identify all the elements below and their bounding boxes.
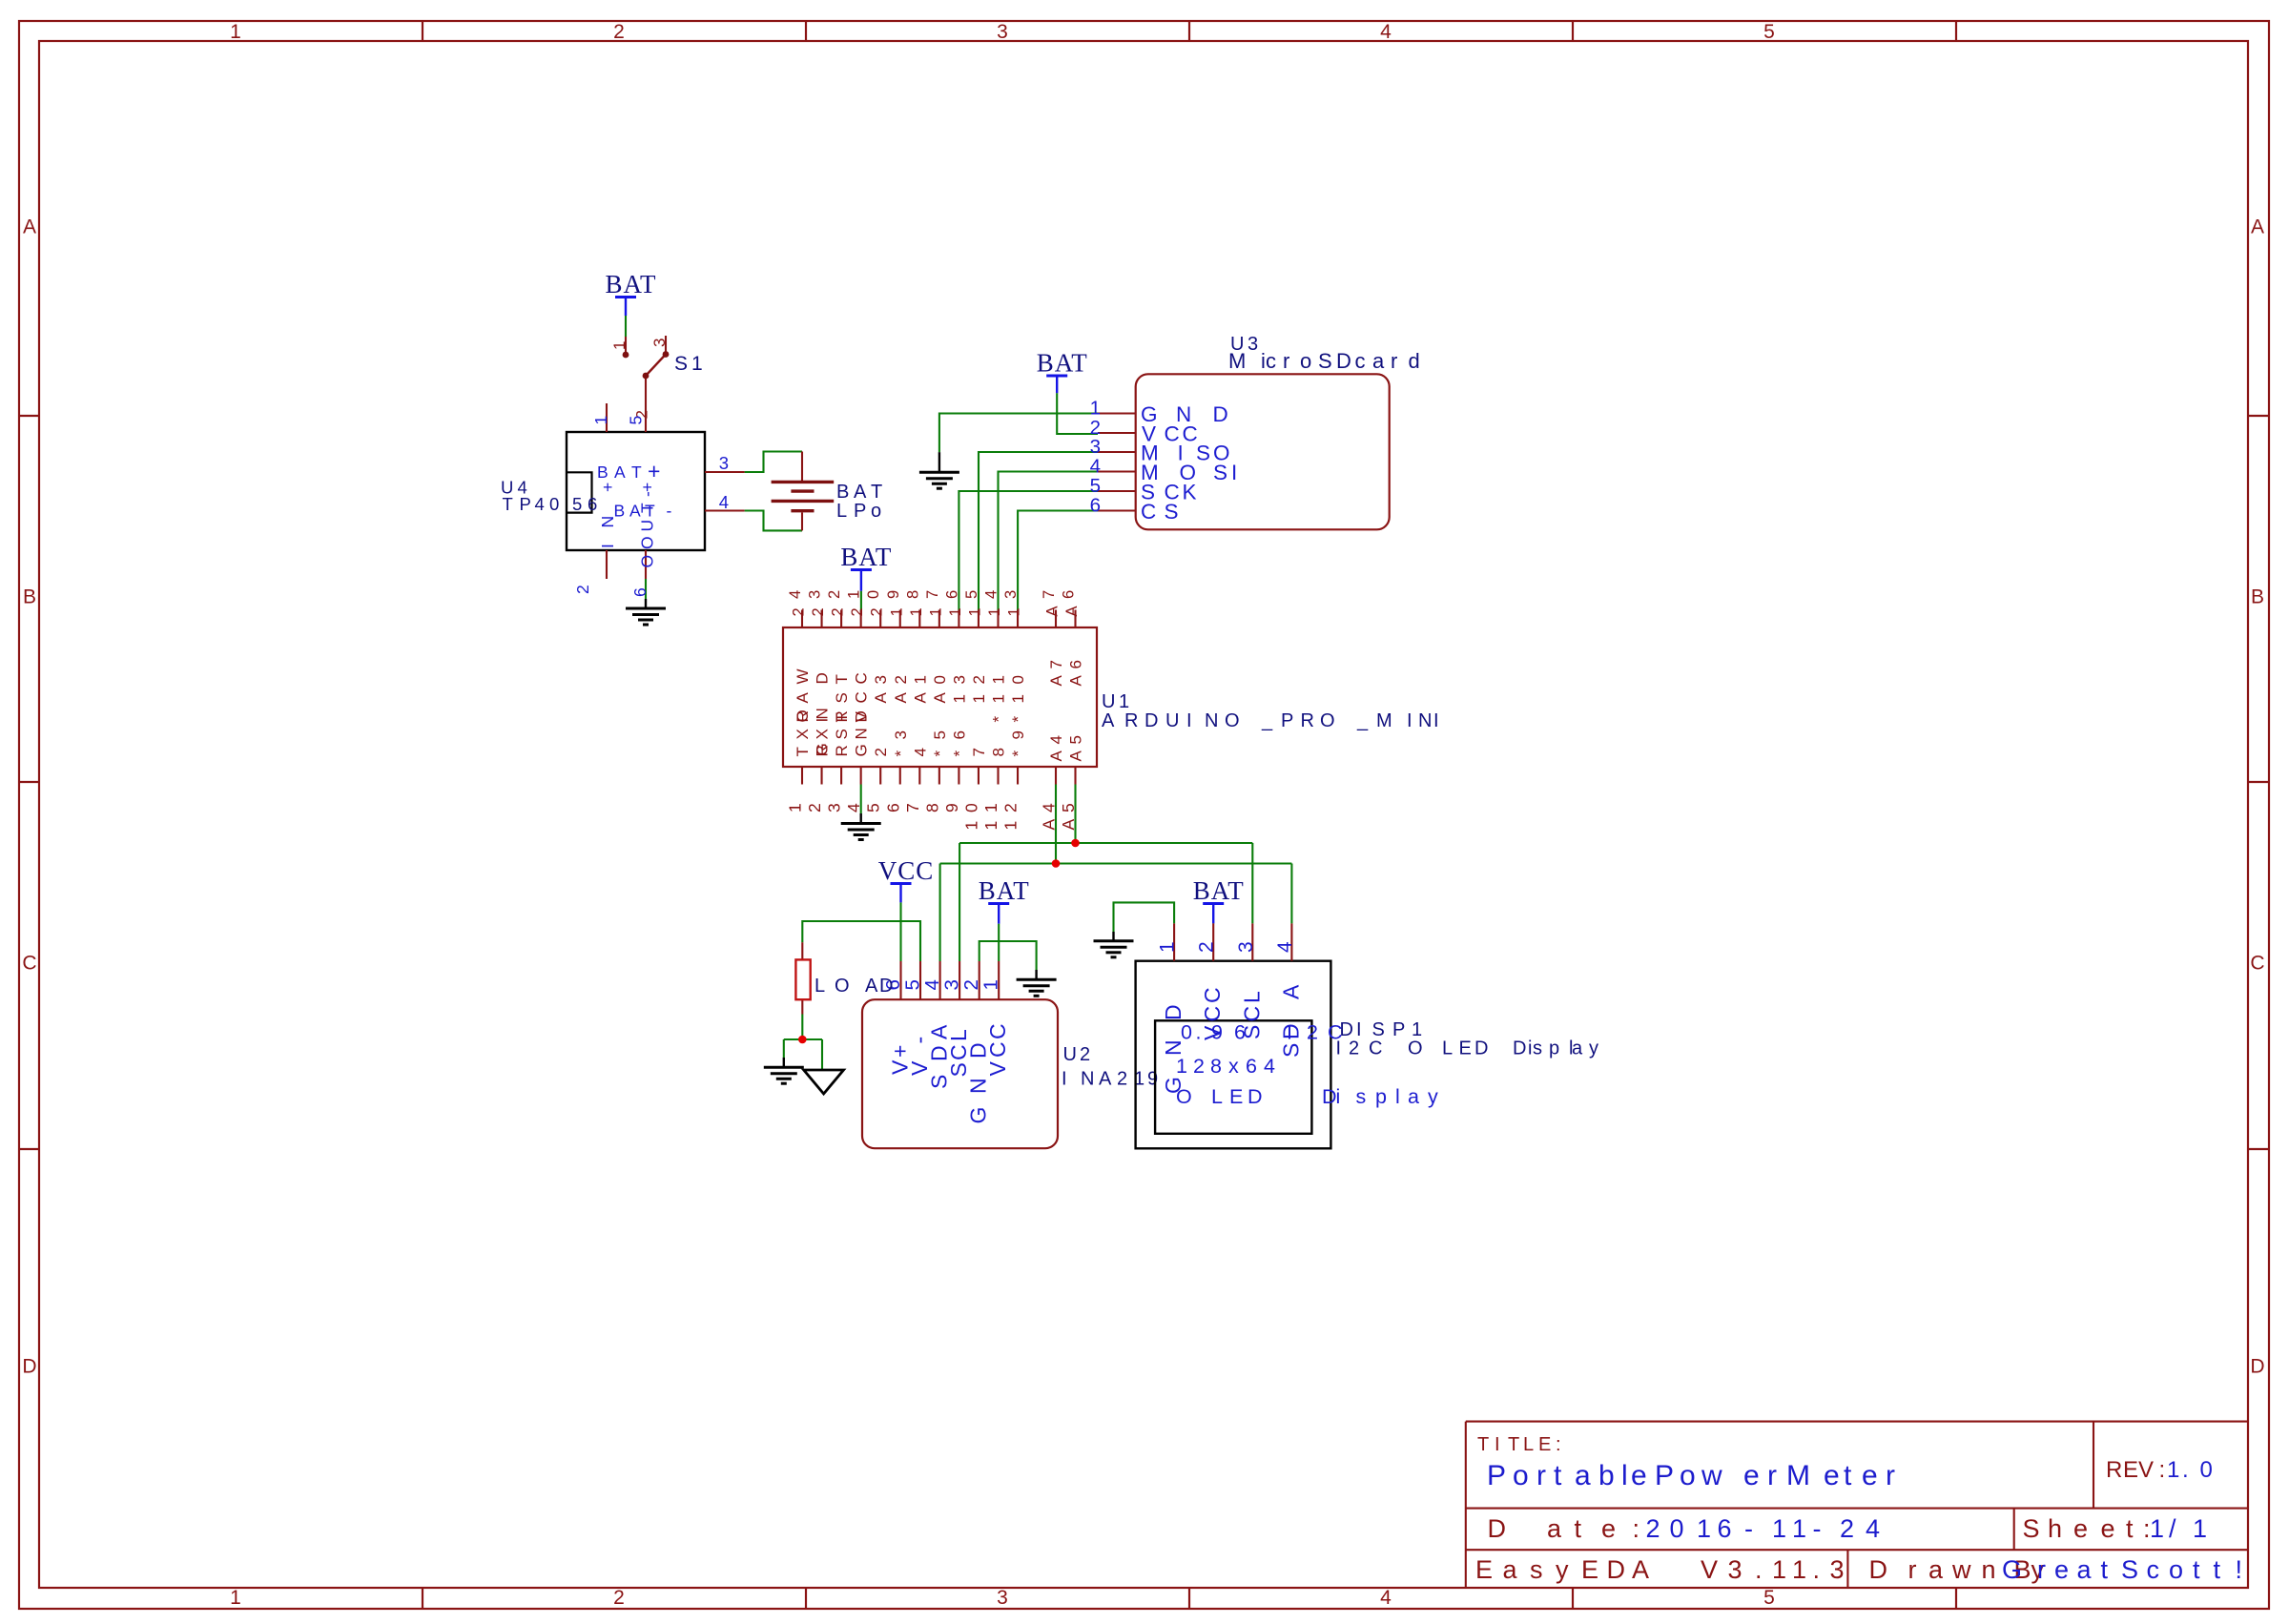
svg-text:2: 2 [869, 607, 886, 616]
svg-text:I: I [814, 718, 832, 723]
svg-text:A: A [1047, 675, 1065, 687]
svg-text:1: 1 [961, 821, 980, 831]
svg-text:D: D [1161, 1004, 1186, 1020]
svg-text:C: C [853, 691, 871, 703]
svg-text:9: 9 [1009, 730, 1027, 739]
svg-text:6: 6 [630, 587, 650, 597]
svg-text:5: 5 [931, 730, 949, 739]
svg-text:X: X [814, 729, 832, 739]
svg-text:4: 4 [1380, 1587, 1392, 1609]
svg-text:3: 3 [1235, 941, 1257, 953]
svg-text:*: * [1009, 716, 1027, 723]
svg-text:4: 4 [844, 803, 863, 812]
svg-text:4: 4 [1040, 803, 1059, 812]
svg-text:C: C [985, 1023, 1010, 1039]
svg-text:BAT: BAT [605, 270, 656, 298]
svg-text:7: 7 [903, 803, 922, 812]
svg-text:4: 4 [719, 492, 729, 512]
svg-text:1: 1 [908, 607, 925, 616]
svg-text:7: 7 [1041, 590, 1058, 599]
svg-text:0: 0 [865, 590, 882, 599]
svg-text:1: 1 [986, 607, 1003, 616]
svg-text:2: 2 [810, 607, 827, 616]
svg-text:9: 9 [942, 803, 961, 812]
svg-text:2: 2 [805, 803, 824, 812]
svg-text:4: 4 [1047, 735, 1065, 744]
svg-text:I: I [598, 544, 617, 548]
svg-text:D: D [2250, 1356, 2264, 1378]
svg-text:G: G [966, 1107, 991, 1124]
svg-text:6: 6 [1067, 660, 1085, 668]
svg-text:ARDUINO_PRO_MINI: ARDUINO_PRO_MINI [1102, 710, 1439, 731]
svg-text:+: + [598, 483, 617, 492]
svg-text:S: S [1278, 1043, 1303, 1058]
svg-text:7: 7 [924, 590, 941, 599]
svg-text:4: 4 [1274, 941, 1296, 953]
svg-text:4: 4 [911, 748, 929, 756]
svg-text:8: 8 [922, 803, 941, 812]
svg-text:U2: U2 [1063, 1044, 1091, 1065]
svg-text:B: B [23, 586, 36, 608]
svg-text:U: U [638, 520, 657, 532]
svg-text:G: G [853, 744, 871, 756]
svg-text:1: 1 [970, 694, 988, 703]
svg-text:6: 6 [1061, 590, 1078, 599]
svg-text:R: R [814, 745, 832, 756]
svg-text:6: 6 [943, 590, 960, 599]
svg-text:4: 4 [1380, 21, 1392, 43]
svg-text:3: 3 [807, 590, 824, 599]
svg-text:BAT: BAT [1193, 876, 1245, 905]
svg-text:0: 0 [1009, 675, 1027, 684]
svg-text:1: 1 [966, 607, 983, 616]
svg-text:A: A [1067, 750, 1085, 762]
svg-text:1: 1 [911, 675, 929, 684]
svg-text:1: 1 [230, 1587, 241, 1609]
svg-text:1: 1 [786, 803, 805, 812]
svg-text:A: A [911, 692, 929, 704]
svg-text:A: A [892, 692, 910, 704]
svg-text:A: A [1040, 819, 1059, 831]
svg-text:6: 6 [950, 730, 968, 739]
svg-text:*: * [931, 750, 949, 757]
svg-text:N: N [814, 708, 832, 719]
svg-text:C: C [985, 1041, 1010, 1058]
svg-text:+: + [888, 1045, 913, 1058]
svg-text:3: 3 [997, 21, 1008, 43]
svg-text:S: S [833, 729, 851, 739]
svg-text:LPo: LPo [836, 501, 881, 522]
svg-text:C: C [1239, 1006, 1264, 1022]
svg-text:5: 5 [864, 803, 883, 812]
svg-text:2: 2 [826, 590, 843, 599]
svg-text:2: 2 [1196, 941, 1218, 953]
svg-text:1: 1 [230, 21, 241, 43]
svg-text:3: 3 [997, 1587, 1008, 1609]
svg-text:O: O [794, 709, 812, 722]
svg-text:5: 5 [902, 979, 924, 990]
svg-text:1: 1 [981, 803, 1000, 812]
svg-text:A: A [1059, 819, 1078, 831]
svg-text:3: 3 [872, 675, 890, 684]
svg-text:1: 1 [980, 979, 1002, 990]
svg-text:2: 2 [849, 607, 866, 616]
svg-text:2: 2 [892, 675, 910, 684]
svg-text:N: N [598, 516, 617, 528]
svg-text:2: 2 [613, 1587, 625, 1609]
svg-text:V: V [985, 1061, 1010, 1077]
svg-text:6: 6 [883, 803, 902, 812]
svg-text:A: A [872, 692, 890, 704]
svg-text:6: 6 [1090, 494, 1101, 516]
svg-text:0: 0 [961, 803, 980, 812]
svg-text:2: 2 [872, 748, 890, 756]
svg-text:B: B [2251, 586, 2264, 608]
svg-text:V: V [907, 1060, 932, 1076]
svg-text:4: 4 [983, 590, 1000, 599]
svg-text:0: 0 [931, 675, 949, 684]
svg-text:2: 2 [613, 21, 625, 43]
svg-text:5: 5 [963, 590, 980, 599]
svg-text:BAT: BAT [1037, 349, 1088, 378]
svg-text:1: 1 [1006, 607, 1023, 616]
svg-text:A: A [1278, 984, 1303, 999]
svg-text:*: * [990, 716, 1008, 723]
svg-text:7: 7 [1047, 660, 1065, 668]
svg-text:1: 1 [990, 675, 1008, 684]
svg-text:X: X [794, 729, 812, 739]
svg-text:T: T [833, 712, 851, 722]
svg-text:2: 2 [573, 585, 592, 594]
svg-text:+: + [648, 459, 660, 483]
svg-text:C: C [2250, 953, 2264, 975]
svg-text:T: T [833, 674, 851, 684]
svg-text:BAT: BAT [979, 876, 1030, 905]
svg-text:5: 5 [1763, 21, 1775, 43]
svg-text:9: 9 [885, 590, 902, 599]
svg-text:2: 2 [791, 607, 808, 616]
svg-text:1: 1 [927, 607, 944, 616]
svg-text:VCC: VCC [878, 856, 935, 885]
svg-text:O: O [638, 536, 657, 549]
svg-text:1: 1 [591, 416, 610, 425]
svg-text:2: 2 [830, 607, 847, 616]
svg-text:4: 4 [787, 590, 804, 599]
svg-text:A: A [2251, 216, 2264, 238]
svg-text:L: L [946, 1029, 971, 1041]
svg-text:A: A [23, 216, 36, 238]
svg-text:W: W [794, 668, 812, 684]
svg-text:C: C [22, 953, 36, 975]
svg-text:*: * [892, 750, 910, 757]
svg-text:3: 3 [892, 730, 910, 739]
svg-text:O: O [638, 555, 657, 568]
svg-text:5: 5 [1067, 735, 1085, 744]
svg-text:3: 3 [941, 979, 963, 990]
svg-text:L: L [1239, 991, 1264, 1003]
svg-text:3: 3 [825, 803, 844, 812]
svg-text:1: 1 [1001, 821, 1021, 831]
svg-text:R: R [833, 745, 851, 756]
svg-text:*: * [950, 750, 968, 757]
svg-text:2: 2 [970, 675, 988, 684]
svg-text:A: A [931, 692, 949, 704]
svg-text:A: A [1063, 606, 1081, 616]
svg-text:8: 8 [904, 590, 921, 599]
svg-text:5: 5 [1059, 803, 1078, 812]
svg-text:A: A [1067, 675, 1085, 687]
svg-text:*: * [1009, 750, 1027, 757]
svg-text:D: D [814, 672, 832, 684]
svg-text:S: S [946, 1062, 971, 1077]
svg-text:8: 8 [990, 748, 1008, 756]
svg-text:3: 3 [650, 339, 669, 347]
svg-text:A: A [1047, 750, 1065, 762]
svg-text:BAT: BAT [840, 543, 892, 571]
svg-text:+: + [638, 483, 657, 492]
svg-text:I2COLEDDisplay: I2COLEDDisplay [1336, 1038, 1599, 1059]
svg-text:1: 1 [981, 821, 1000, 831]
svg-text:N: N [853, 728, 871, 739]
svg-text:5: 5 [627, 416, 646, 425]
svg-text:1: 1 [990, 694, 1008, 703]
svg-text:BAT: BAT [836, 482, 882, 503]
svg-text:C: C [853, 672, 871, 684]
svg-text:1: 1 [610, 341, 629, 350]
svg-text:A: A [794, 692, 812, 704]
svg-text:1: 1 [888, 607, 905, 616]
svg-text:2: 2 [1001, 803, 1021, 812]
svg-text:C: C [1200, 987, 1225, 1003]
svg-text:D: D [22, 1356, 36, 1378]
svg-text:1: 1 [846, 590, 863, 599]
svg-text:5: 5 [1763, 1587, 1775, 1609]
svg-text:A: A [1044, 606, 1062, 616]
svg-text:BAT: BAT [597, 463, 642, 482]
svg-text:3: 3 [1002, 590, 1020, 599]
svg-text:C: C [1200, 1006, 1225, 1022]
svg-text:T: T [638, 503, 657, 513]
svg-text:T: T [794, 747, 812, 756]
svg-text:N: N [966, 1078, 991, 1094]
svg-text:1: 1 [950, 694, 968, 703]
svg-text:D: D [853, 710, 871, 722]
svg-text:3: 3 [719, 453, 729, 473]
svg-text:-: - [638, 491, 657, 497]
svg-text:1: 1 [1009, 694, 1027, 703]
svg-text:S: S [833, 692, 851, 703]
svg-text:3: 3 [950, 675, 968, 684]
svg-text:1: 1 [1157, 941, 1179, 953]
svg-text:1: 1 [947, 607, 964, 616]
svg-text:7: 7 [970, 748, 988, 756]
